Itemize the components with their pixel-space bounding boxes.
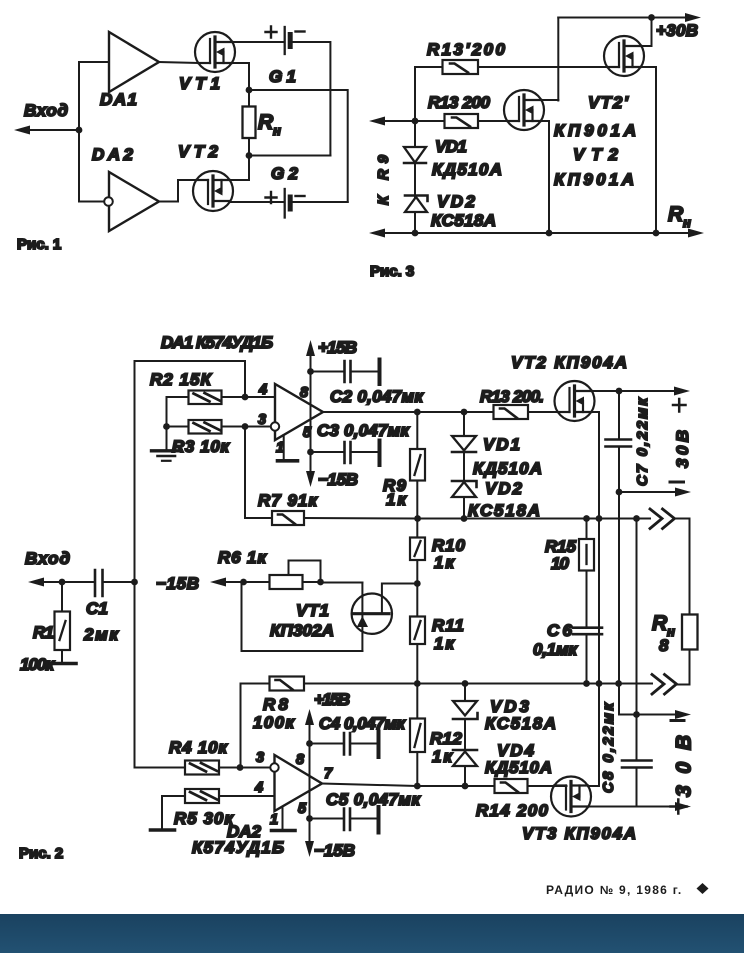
node bottom rail left junction [412, 230, 419, 237]
svg-text:КС518А: КС518А [431, 211, 496, 230]
svg-text:R7 91к: R7 91к [258, 491, 318, 510]
svg-text:7: 7 [324, 766, 333, 782]
capacitor C3 [311, 451, 345, 453]
wire DA1 pin3 feedback drop [244, 427, 246, 519]
wire R13' to VT2' gate [478, 66, 619, 68]
node VD2 bottom junction [461, 515, 468, 522]
inverting bubble DA1 fig2 [271, 422, 279, 430]
terminal bar R1 [50, 662, 76, 666]
arrow +15V DA2 [305, 709, 314, 725]
svg-text:+30В: +30В [656, 21, 698, 40]
wire upper bus to RH [675, 519, 690, 615]
arrow -15V DA2 [305, 841, 314, 857]
resistor R4 [185, 761, 219, 775]
diode VD1 fig2 [452, 436, 476, 451]
wire -30V top arrow [619, 491, 678, 493]
svg-text:4: 4 [258, 382, 267, 398]
svg-text:R11: R11 [432, 616, 464, 635]
svg-text:1к: 1к [434, 634, 455, 653]
svg-text:R14 200: R14 200 [476, 801, 549, 820]
svg-text:С1: С1 [86, 599, 108, 618]
wire to DA2 input [79, 201, 104, 203]
wire VT3 drain to +30V [589, 806, 637, 808]
svg-text:К574УД1Б: К574УД1Б [192, 838, 284, 857]
node chain lower bus junction [414, 680, 421, 687]
node C8 top junction [633, 515, 640, 522]
svg-text:Рис. 1: Рис. 1 [17, 236, 61, 253]
wire R4 right to DA2 pin3 [219, 767, 270, 769]
wire R7 bus left [245, 517, 272, 519]
svg-text:VT1: VT1 [296, 601, 329, 620]
svg-text:DA2: DA2 [92, 145, 134, 164]
node C7 top junction [616, 388, 623, 395]
VT1 gate arrow [357, 616, 368, 627]
node C5 junction [306, 815, 313, 822]
wire input vertical fig1 [78, 62, 80, 202]
input arrow fig1 [14, 126, 30, 135]
node R3 left junction [163, 423, 170, 430]
bottom blue band [0, 914, 744, 953]
svg-text:Рис. 3: Рис. 3 [370, 263, 414, 280]
node C7 bottom junction [616, 489, 623, 496]
op-amp DA2 fig2 [275, 755, 323, 811]
op-amp DA2 [109, 172, 159, 231]
svg-text:R5 30к: R5 30к [174, 809, 234, 828]
svg-text:8: 8 [296, 752, 305, 768]
resistor R6 trimmer [270, 575, 303, 589]
svg-text:R2 15К: R2 15К [150, 370, 213, 389]
zener VD2 fig3 [405, 197, 427, 212]
pin1 stub DA2 [282, 807, 284, 830]
svg-text:100к: 100к [253, 713, 295, 732]
wire R2 left to ground vertical [167, 397, 189, 450]
svg-text:3: 3 [258, 412, 266, 428]
wire R5 left to ground [162, 796, 185, 829]
resistor R8 [270, 677, 305, 691]
svg-text:10: 10 [551, 554, 570, 573]
battery G2 plus sign [266, 192, 277, 203]
minus sign top supply [670, 481, 684, 484]
capacitor C2 [311, 371, 345, 373]
resistor R10 [410, 538, 425, 561]
wire load resistor leads [248, 90, 250, 156]
svg-text:8: 8 [300, 385, 309, 401]
svg-text:5: 5 [298, 801, 307, 817]
node VD1 top junction [461, 409, 468, 416]
svg-text:2мк: 2мк [83, 625, 119, 644]
svg-text:DA1: DA1 [100, 90, 137, 109]
svg-text:R6 1к: R6 1к [218, 548, 267, 567]
svg-text:н: н [273, 123, 281, 138]
wire DA2 output to VT2 gate [159, 180, 208, 202]
wire DA2 power vertical [309, 716, 311, 848]
node input junction fig2 [131, 579, 138, 586]
wire VT1 source down to load top [232, 63, 249, 90]
node VD3 top junction [462, 680, 469, 687]
node VT2 source junction [596, 515, 603, 522]
node bottom rail VT2 source junction [546, 230, 553, 237]
svg-text:КП302А: КП302А [270, 621, 334, 640]
arrow -15V mid [210, 578, 226, 587]
diode VD4 fig2 [453, 752, 477, 767]
wire R6 left lead [244, 581, 270, 583]
wire R2 right to DA1 pin4 [222, 396, 276, 398]
svg-text:0,1мк: 0,1мк [533, 640, 578, 659]
battery G1 long plate [284, 27, 286, 54]
wire load bottom to inner right vertical [249, 155, 330, 157]
svg-text:1к: 1к [432, 747, 453, 766]
battery G2 minus sign [296, 195, 305, 197]
capacitor C6 plates [573, 628, 602, 635]
resistor RH fig1 [243, 107, 256, 139]
wire R8 bus left corner [240, 684, 242, 768]
node VT2' drain junction [648, 14, 655, 21]
wire top feedback drop to R2 out [244, 361, 246, 397]
arrow -30V top [675, 488, 691, 497]
inverting bubble DA2 fig2 [270, 763, 278, 771]
svg-text:3: 3 [256, 750, 264, 766]
svg-text:−15В: −15В [314, 841, 355, 860]
transistor VT2' fig3 [604, 36, 644, 76]
svg-text:DA1 К574УД1Б: DA1 К574УД1Б [161, 333, 273, 352]
wire VT3 source up [588, 785, 599, 787]
wire minus rail vertical [618, 492, 620, 715]
wire C7 vertical [618, 391, 620, 492]
arrow +15V DA1 [306, 340, 315, 356]
svg-text:РАДИО № 9, 1986 г.: РАДИО № 9, 1986 г. [546, 883, 683, 897]
svg-text:−15В: −15В [156, 574, 199, 593]
wire VT1 gate vertical [361, 583, 363, 652]
node R1 junction [59, 579, 66, 586]
wire R15 C6 vertical [586, 519, 588, 684]
footer diamond [697, 883, 709, 894]
svg-text:4: 4 [254, 780, 263, 796]
zener VD3 fig2 [453, 701, 477, 716]
node DA1 pin3 junction [242, 423, 249, 430]
transistor VT2 fig3 [504, 90, 544, 130]
node load top junction [246, 87, 253, 94]
wire R8 left lead [241, 683, 270, 685]
op-amp DA1 fig2 [275, 384, 323, 440]
svg-text:К R9: К R9 [375, 154, 392, 205]
svg-text:КД510А: КД510А [485, 758, 552, 777]
node bottom rail VT2' source junction [653, 230, 660, 237]
wire fig2 input long vertical [134, 361, 136, 768]
node left mid junction fig3 [412, 118, 419, 125]
node VT1 drain junction [414, 580, 421, 587]
wire input fig2 [41, 581, 95, 583]
wire DA2 output bus [322, 784, 567, 787]
wire R13 to VT2 gate [478, 120, 519, 122]
svg-text:VT2: VT2 [573, 145, 619, 164]
wire load bottom down to VT2 source [248, 156, 250, 181]
wire +30V top rail fig3 [558, 17, 687, 19]
node VT3 source junction [596, 680, 603, 687]
node minus rail lower bus junction [615, 680, 622, 687]
arrow to R9 fig3 [369, 117, 385, 126]
wire +30V bottom arrow [637, 806, 679, 808]
minus sign bottom supply [671, 719, 684, 722]
wire R4 feed horizontal [135, 767, 186, 769]
arrow +30V top [674, 387, 690, 396]
wire to DA1 input [79, 61, 109, 63]
svg-text:R: R [668, 203, 684, 226]
svg-text:VD1: VD1 [483, 435, 520, 454]
wire R13 left lead [415, 120, 445, 122]
resistor R9 [410, 449, 425, 481]
svg-text:30В: 30В [673, 430, 692, 468]
node R15 top junction [583, 515, 590, 522]
zener VD2 fig2 [452, 482, 476, 497]
wire load top to outer right vertical [249, 90, 348, 202]
wire VT2 drain to +30V [592, 390, 676, 392]
svg-text:R13 200: R13 200 [428, 93, 491, 112]
arrow bottom rail right fig3 [688, 229, 704, 238]
node C2 junction [307, 368, 314, 375]
svg-text:R12: R12 [430, 729, 463, 748]
wire R6 right to VT1 gate [303, 581, 363, 584]
node chain DA2 out junction [414, 783, 421, 790]
capacitor C1 [95, 570, 103, 596]
inverting bubble DA2 [104, 197, 113, 206]
resistor RH fig2 [682, 615, 698, 650]
svg-text:8: 8 [659, 636, 669, 655]
wire RH bottom to lower bus [677, 650, 690, 685]
wire VT2 drain to battery G2 [231, 201, 285, 203]
wire fig2 top-left horizontal [135, 360, 246, 362]
svg-text:1: 1 [270, 812, 278, 828]
wire to R13' [415, 66, 443, 68]
resistor R2 [189, 391, 222, 405]
ground under R2 R3 [152, 449, 182, 452]
svg-text:VT2 КП904А: VT2 КП904А [511, 353, 627, 372]
node R6 right junction [317, 579, 324, 586]
svg-text:VD2: VD2 [437, 192, 476, 211]
wire -30V bottom arrow [619, 714, 678, 716]
wire R5 right to DA2 pin4 [219, 795, 275, 797]
svg-text:−15В: −15В [318, 470, 358, 489]
wire bottom rail fig3 [383, 232, 690, 234]
diode VD1 fig3 [404, 147, 426, 163]
node DA2 pin3 junction [237, 764, 244, 771]
resistor R12 [410, 719, 425, 753]
VT1 drain lead [382, 584, 417, 614]
plus sign top supply [673, 399, 686, 412]
node C6 bottom junction [583, 680, 590, 687]
wire VT2' drain up [642, 18, 652, 47]
wire VT2' source down [641, 67, 656, 233]
svg-text:С3 0,047мк: С3 0,047мк [317, 421, 410, 440]
wire DA1 power vertical [310, 346, 312, 478]
svg-text:R4 10к: R4 10к [169, 738, 228, 757]
transistor VT2 fig2 [555, 381, 595, 421]
wire VT2 source to load bottom [231, 179, 250, 181]
wire mid arrow left fig3 [383, 120, 415, 122]
node R2 output junction [242, 394, 249, 401]
wire battery G1 to right vertical [290, 42, 330, 156]
svg-text:С5 0,047мк: С5 0,047мк [326, 790, 421, 809]
arrow input fig2 [28, 578, 44, 587]
svg-text:30В: 30В [673, 735, 696, 797]
svg-text:VT2: VT2 [178, 142, 219, 161]
battery G2 long plate [284, 189, 286, 218]
resistor R7 [272, 511, 304, 525]
wire VT2 drain to top vertical [542, 99, 559, 101]
op-amp DA1 [109, 32, 159, 92]
resistor R11 [410, 617, 425, 645]
svg-text:VD1: VD1 [435, 137, 467, 156]
wire battery G2 to outer vertical [290, 201, 348, 203]
arrow +30V fig3 [685, 13, 701, 22]
transistor VT3 fig2 [551, 777, 591, 817]
svg-text:R13 200.: R13 200. [480, 387, 544, 406]
arrow +30V bottom [675, 802, 691, 811]
svg-text:Вход: Вход [25, 549, 70, 568]
svg-text:С2 0,047мк: С2 0,047мк [330, 387, 424, 406]
resistor R13 [494, 405, 529, 419]
resistor R3 [189, 420, 222, 434]
svg-text:VD2: VD2 [485, 479, 523, 498]
wire R1 top lead [61, 582, 63, 612]
resistor R13' fig3 [443, 60, 479, 74]
wire DA1 output [323, 411, 570, 413]
battery G1 plus sign [266, 27, 277, 38]
wire VD chain top vertical [463, 412, 465, 519]
svg-text:С4 0,047мк: С4 0,047мк [319, 714, 406, 733]
battery G1 minus sign [296, 30, 305, 32]
node R6 left junction [240, 579, 247, 586]
svg-text:VT1: VT1 [179, 74, 220, 93]
wire lower bus R8 to chevron [304, 683, 652, 685]
svg-text:R3 10к: R3 10к [172, 437, 230, 456]
wire input horizontal fig1 [27, 129, 79, 131]
node chain R7bus junction [414, 515, 421, 522]
svg-text:н: н [683, 215, 691, 230]
resistor R1 [55, 612, 71, 651]
node C3 junction [307, 449, 314, 456]
wire VT2 source down to upper bus [592, 412, 600, 786]
node input junction fig1 [76, 127, 83, 134]
transistor VT1 (fig1) [195, 32, 235, 72]
wire R3 right to DA1 pin3 [222, 426, 272, 428]
ground bar R5 [151, 828, 175, 832]
wire R3 left lead [167, 426, 189, 428]
wire left vertical fig3 [414, 67, 416, 233]
wire R6 wiper bracket [289, 561, 321, 583]
node load bottom junction [246, 152, 253, 159]
wire -15V feed [224, 581, 244, 583]
capacitor C7 plates [606, 440, 632, 447]
capacitor C5 [310, 818, 344, 820]
svg-text:R: R [652, 612, 668, 635]
node VD4 bottom junction [462, 783, 469, 790]
wire VT1 drain to battery G1 [233, 41, 285, 43]
chevron connector upper [650, 509, 675, 529]
wire R1 bottom lead [61, 650, 63, 663]
svg-text:Вход: Вход [24, 101, 68, 120]
resistor R13 fig3 [445, 114, 479, 128]
node -30V bottom C8 junction [633, 711, 640, 718]
arrow -15V DA1 [306, 471, 315, 487]
svg-text:+15В: +15В [314, 690, 350, 709]
battery G1 short plate [288, 35, 293, 47]
svg-text:+15В: +15В [318, 338, 357, 357]
svg-text:1к: 1к [434, 553, 455, 572]
svg-text:1к: 1к [386, 490, 407, 509]
wire DA1 output to VT1 gate [159, 62, 210, 63]
wire VD chain bottom vertical [464, 684, 466, 787]
wire C8 vertical [636, 519, 638, 807]
node chain top junction [414, 409, 421, 416]
wire R9-R12 chain vertical [416, 412, 418, 786]
svg-text:R1: R1 [33, 623, 54, 642]
plus sign bottom supply [671, 800, 687, 814]
resistor R5 [185, 789, 219, 803]
transistor VT2 (fig1) [193, 171, 233, 211]
wire upper bus R7 to chevron [304, 517, 650, 520]
wire VT1 source bottom [242, 582, 363, 651]
svg-text:Рис. 2: Рис. 2 [19, 845, 63, 862]
VT1 channel bar [354, 612, 390, 615]
battery G2 short plate [288, 197, 293, 209]
transistor VT1 fig2 JFET circle [352, 594, 392, 634]
resistor R15 [579, 539, 594, 571]
svg-text:VT3 КП904А: VT3 КП904А [522, 824, 636, 843]
svg-text:R: R [258, 111, 274, 134]
pin1 stub DA1 [283, 435, 285, 460]
wire VT2 source down [541, 121, 549, 233]
resistor R14 [495, 779, 528, 793]
node C4 junction [306, 740, 313, 747]
chevron connector lower [652, 675, 677, 695]
capacitor C8 plates [622, 761, 652, 768]
wire VT2 drain vertical to +30V [557, 18, 559, 101]
capacitor C4 [310, 743, 344, 745]
arrow -30V bottom [675, 710, 691, 719]
arrow bottom rail left fig3 [369, 229, 385, 238]
